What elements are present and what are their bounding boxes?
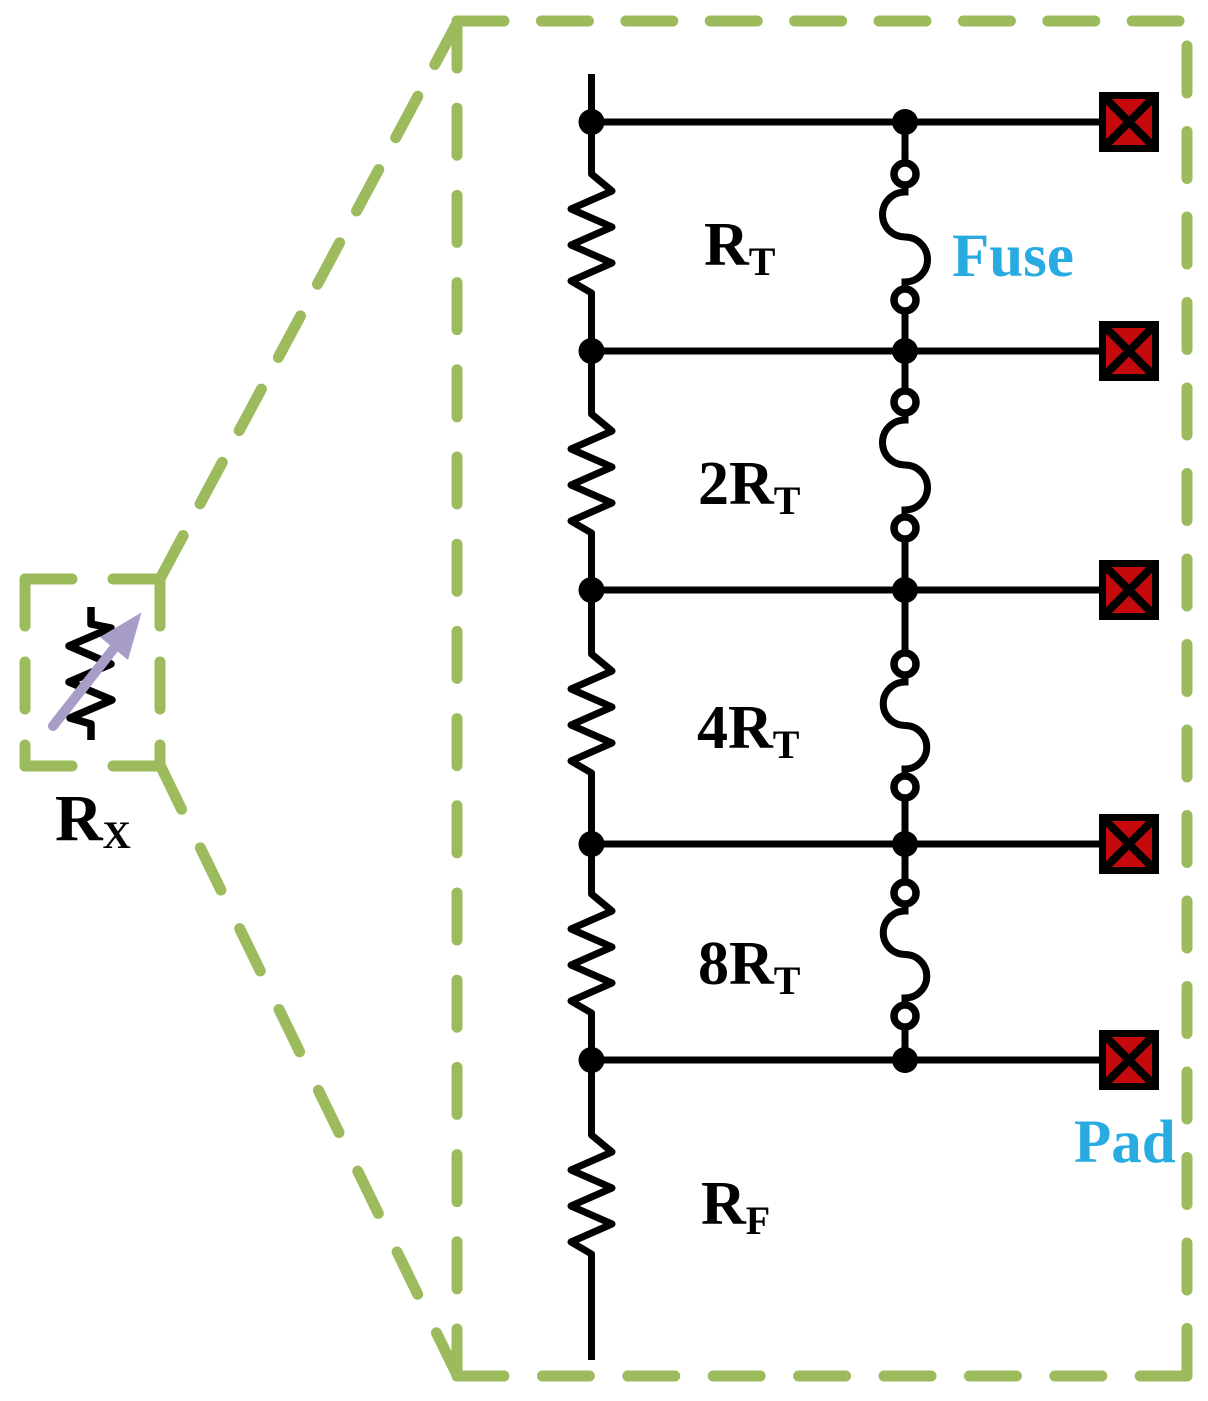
svg-text:Pad: Pad (1074, 1109, 1176, 1176)
svg-text:Fuse: Fuse (952, 223, 1074, 290)
